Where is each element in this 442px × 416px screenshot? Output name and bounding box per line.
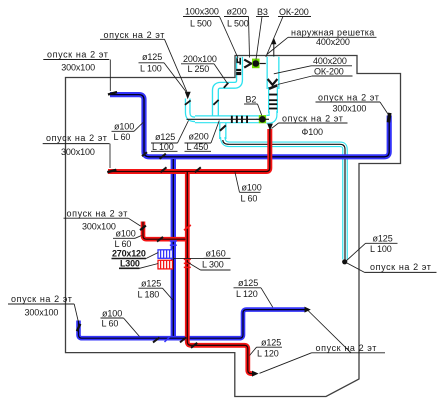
svg-text:300x100: 300x100 [333, 104, 367, 114]
svg-text:опуск на 2 эт: опуск на 2 эт [67, 209, 129, 219]
svg-text:ø125: ø125 [155, 132, 175, 142]
svg-text:В3: В3 [257, 7, 268, 17]
svg-text:100x300: 100x300 [185, 7, 219, 17]
svg-text:В2: В2 [246, 95, 257, 105]
svg-text:опуск на 2 эт: опуск на 2 эт [370, 262, 432, 272]
svg-text:270x120: 270x120 [112, 249, 146, 259]
svg-text:L 300: L 300 [202, 260, 224, 270]
svg-text:L 60: L 60 [102, 319, 119, 329]
svg-text:L 60: L 60 [115, 239, 132, 249]
svg-text:ø125: ø125 [142, 52, 162, 62]
svg-text:ø200: ø200 [227, 7, 247, 17]
svg-text:L 120: L 120 [257, 348, 279, 358]
svg-text:ø100: ø100 [114, 122, 134, 132]
svg-text:L 100: L 100 [370, 244, 392, 254]
svg-text:200x100: 200x100 [183, 54, 217, 64]
svg-text:опуск на 2 эт: опуск на 2 эт [11, 294, 73, 304]
svg-text:ø100: ø100 [102, 308, 122, 318]
svg-text:L 100: L 100 [152, 142, 174, 152]
svg-text:L 250: L 250 [188, 64, 210, 74]
svg-text:Ф100: Ф100 [302, 127, 324, 137]
svg-text:наружная решетка: наружная решетка [291, 28, 375, 38]
svg-text:L 100: L 100 [140, 64, 162, 74]
svg-text:ø125: ø125 [373, 234, 393, 244]
svg-text:300x100: 300x100 [82, 222, 116, 232]
svg-text:ø100: ø100 [242, 183, 262, 193]
svg-text:ОК-200: ОК-200 [279, 7, 309, 17]
svg-text:L 60: L 60 [114, 132, 131, 142]
svg-text:ø200: ø200 [189, 132, 209, 142]
svg-text:L 180: L 180 [138, 289, 160, 299]
svg-text:ø160: ø160 [206, 249, 226, 259]
svg-text:опуск на 2 эт: опуск на 2 эт [46, 133, 108, 143]
svg-text:опуск на 2 эт: опуск на 2 эт [318, 93, 380, 103]
svg-text:L300: L300 [120, 259, 140, 269]
svg-text:ø125: ø125 [141, 278, 161, 288]
svg-text:300x100: 300x100 [61, 147, 95, 157]
svg-text:ø125: ø125 [238, 278, 258, 288]
svg-text:400x200: 400x200 [313, 56, 347, 66]
svg-text:L 500: L 500 [227, 19, 249, 29]
svg-text:400x200: 400x200 [316, 37, 350, 47]
svg-text:L 60: L 60 [241, 194, 258, 204]
svg-text:опуск на 2 эт: опуск на 2 эт [104, 30, 166, 40]
svg-text:300x100: 300x100 [25, 307, 59, 317]
svg-text:L 120: L 120 [236, 289, 258, 299]
svg-text:опуск на 2 эт: опуск на 2 эт [282, 114, 344, 124]
svg-text:ОК-200: ОК-200 [314, 67, 344, 77]
svg-text:L 450: L 450 [187, 142, 209, 152]
svg-text:опуск на 2 эт: опуск на 2 эт [47, 49, 109, 59]
svg-text:опуск на 2 эт: опуск на 2 эт [316, 343, 378, 353]
svg-text:ø100: ø100 [116, 229, 136, 239]
svg-text:300x100: 300x100 [61, 62, 95, 72]
svg-text:L 500: L 500 [190, 19, 212, 29]
svg-text:ø125: ø125 [261, 337, 281, 347]
